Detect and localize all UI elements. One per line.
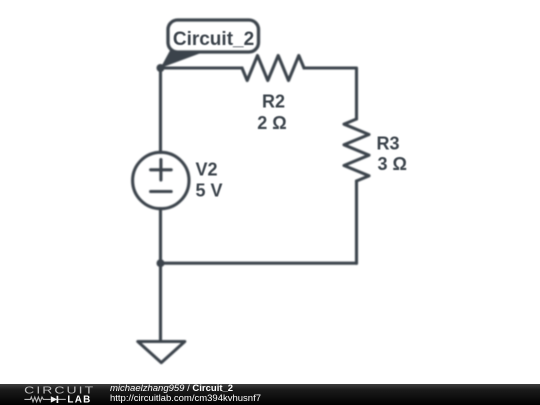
junction node B: [157, 259, 165, 267]
wire: node B down to ground: [159, 263, 162, 341]
junction node A: [157, 64, 165, 72]
wire: R3 bottom lead down to bottom-right corner: [355, 181, 358, 263]
attribution text: [110, 383, 261, 403]
wire top: node A to R2 left lead: [161, 66, 243, 69]
resistor R2: [242, 56, 304, 81]
voltage source V2: [133, 152, 189, 208]
callout Circuit_2 box: [168, 20, 259, 52]
svg-text:5 V: 5 V: [196, 181, 223, 201]
V2 minus sign: [151, 190, 172, 193]
V2 plus sign: [151, 168, 172, 171]
footer bar: [0, 384, 540, 405]
resistor R3: [344, 119, 369, 181]
svg-text:3 Ω: 3 Ω: [378, 154, 407, 174]
wire: V2 bottom terminal to node B: [159, 209, 162, 264]
svg-text:V2: V2: [196, 160, 218, 180]
svg-text:Circuit_2: Circuit_2: [173, 29, 254, 50]
wire: node A down to V2 top terminal: [159, 68, 162, 152]
ground: [138, 342, 185, 363]
svg-text:R3: R3: [377, 134, 400, 154]
wire bottom: bottom-right corner to node B: [161, 262, 357, 265]
svg-text:LAB: LAB: [67, 395, 91, 405]
wire: R2 right lead to top-right corner and down to R3: [304, 68, 357, 119]
CircuitLab logo: [22, 384, 102, 405]
svg-text:R2: R2: [262, 92, 285, 112]
svg-text:2 Ω: 2 Ω: [257, 113, 286, 133]
callout Circuit_2 pointer: [161, 51, 206, 69]
